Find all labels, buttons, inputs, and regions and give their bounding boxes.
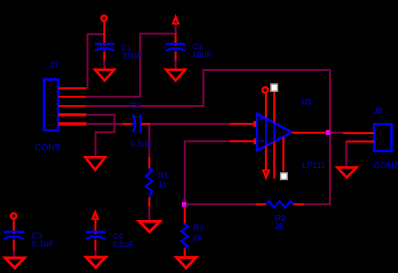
capacitor C6 xyxy=(131,114,140,133)
J2 pin 1 xyxy=(343,132,374,134)
wire J1 pin5 to C6 xyxy=(86,123,123,125)
ground below J2 xyxy=(337,166,356,179)
power symbol arrow above C4 xyxy=(92,211,99,220)
wire J1 pin2 to C2 top rail xyxy=(86,34,175,97)
op-amp minus input lead xyxy=(230,140,256,142)
resistor R3 xyxy=(181,224,187,249)
ground below R3 xyxy=(176,256,196,269)
J1 pin 4 xyxy=(59,113,87,116)
resistor R3 lead top xyxy=(184,207,186,224)
wire C2 arrow stem xyxy=(175,24,177,35)
svg-text:CON2: CON2 xyxy=(373,160,398,170)
wire R1 bottom to ground xyxy=(148,206,150,222)
svg-text:J2: J2 xyxy=(373,106,383,116)
resistor R1 lead top xyxy=(148,157,150,169)
op-amp bottom pin 2 xyxy=(273,142,275,179)
op-amp minus marker xyxy=(259,140,264,142)
wire bottom rail to R2 left xyxy=(185,203,257,205)
ground below C2 xyxy=(166,68,185,82)
resistor R1 lead bottom xyxy=(148,197,150,206)
op-amp bottom pin 1 xyxy=(265,146,267,169)
svg-text:J1: J1 xyxy=(49,60,59,70)
wire C4 bottom to ground xyxy=(95,250,97,258)
svg-text:R3: R3 xyxy=(193,223,204,233)
op-amp output lead xyxy=(292,132,329,134)
op-amp internal pin V- xyxy=(273,123,275,142)
resistor R2 lead right xyxy=(293,203,303,205)
capacitor C2 lead bottom xyxy=(175,52,177,61)
svg-text:10uF: 10uF xyxy=(123,51,142,61)
wire C2 bottom to ground xyxy=(175,58,177,71)
svg-text:C6: C6 xyxy=(130,100,141,110)
op-amp minus input pin end bar xyxy=(254,139,256,145)
no-connect square below op-amp xyxy=(281,173,288,180)
wire C3 bottom to ground xyxy=(13,250,15,258)
resistor R2 xyxy=(266,201,293,207)
J2 pin 2 xyxy=(346,141,374,143)
op-amp U1 xyxy=(257,114,292,151)
ground below J1 pin4 wire xyxy=(85,156,105,171)
op-amp plus input lead xyxy=(230,123,256,125)
capacitor C2 lead top xyxy=(175,33,177,46)
op-amp bottom pin 3 xyxy=(282,137,284,172)
capacitor C3 lead top xyxy=(13,219,15,234)
capacitor C4 xyxy=(86,232,106,240)
wire output junction to J2 pin1 xyxy=(330,132,344,134)
ground below C3 xyxy=(5,256,25,269)
ground below R1 xyxy=(139,220,160,233)
svg-text:2k: 2k xyxy=(275,221,285,231)
svg-text:0.1uF: 0.1uF xyxy=(32,239,54,249)
wire J2 pin2 to ground xyxy=(345,142,347,168)
op-amp top pin to circle xyxy=(265,93,267,118)
wire J1 pin1 to C1 top rail xyxy=(88,34,105,88)
wire J1 pin3 to output feedback rail xyxy=(86,70,330,204)
svg-text:0.1uF: 0.1uF xyxy=(130,138,152,148)
wire C6 to op-amp plus input xyxy=(149,123,230,125)
svg-text:LP111: LP111 xyxy=(302,160,326,170)
capacitor C4 lead bottom xyxy=(94,240,96,251)
wire C1 bottom to ground xyxy=(103,60,105,71)
connector J1 xyxy=(44,80,58,131)
J1 pin 2 xyxy=(59,96,87,98)
resistor R2 lead left xyxy=(256,203,267,205)
power symbol circle above op-amp xyxy=(263,87,268,92)
wire node to R1 xyxy=(148,124,150,158)
capacitor C4 lead top xyxy=(94,219,96,234)
J1 pin 1 xyxy=(59,87,87,89)
op-amp top pin to square xyxy=(273,91,275,122)
resistor R3 lead bottom xyxy=(184,248,186,256)
svg-text:0.1uF: 0.1uF xyxy=(113,239,135,249)
ground below C4 xyxy=(86,256,106,269)
junction output node xyxy=(326,130,330,135)
junction feedback node xyxy=(182,202,186,207)
svg-text:2k: 2k xyxy=(193,233,203,243)
capacitor C1 lead bottom xyxy=(103,52,105,61)
capacitor C2 xyxy=(166,44,186,52)
capacitor C6 lead right xyxy=(142,123,150,125)
svg-text:10uF: 10uF xyxy=(192,49,211,59)
wire R3 bottom to ground xyxy=(184,251,186,258)
J1 pin 3 xyxy=(59,105,87,107)
J1 pin 5 xyxy=(59,122,87,125)
ground below C1 xyxy=(95,68,114,82)
op-amp plus marker xyxy=(259,116,264,121)
resistor R1 xyxy=(146,168,152,197)
wire feedback to minus input xyxy=(185,141,231,204)
power symbol down arrow below op-amp xyxy=(262,170,269,179)
connector J2 xyxy=(374,124,391,151)
capacitor C1 lead top xyxy=(103,21,105,46)
capacitor C6 lead left xyxy=(123,123,134,125)
power symbol arrow above C2 xyxy=(172,15,179,24)
svg-text:CON5: CON5 xyxy=(35,142,61,152)
power symbol square above op-amp xyxy=(271,84,278,91)
capacitor C1 xyxy=(95,44,115,52)
capacitor C3 xyxy=(4,232,24,240)
power symbol circle above C1 xyxy=(101,16,106,21)
op-amp plus input pin end bar xyxy=(254,121,256,127)
wire R2 right to output vertical xyxy=(303,200,330,204)
op-amp internal pin V+ xyxy=(265,118,267,146)
wire J1 pin4 to ground xyxy=(86,115,114,158)
power symbol circle above C3 xyxy=(11,213,16,218)
capacitor C3 lead bottom xyxy=(13,240,15,251)
svg-text:1k: 1k xyxy=(158,180,168,190)
svg-text:U1: U1 xyxy=(302,97,313,107)
